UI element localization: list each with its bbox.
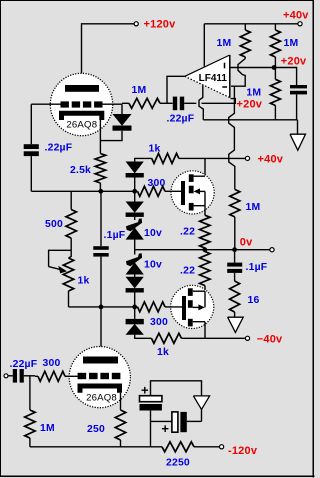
mosfet Q1 envelope: [171, 171, 214, 214]
zener chain Z-C: [126, 217, 143, 255]
label 1M right: [284, 38, 299, 49]
mosfet Q2 channel: [188, 288, 193, 326]
svg-text:300: 300: [150, 317, 168, 328]
resistor 1M feedback: [230, 189, 240, 249]
ground upper right: [290, 134, 306, 150]
node 0v junction a: [202, 247, 207, 252]
wire +20v node: [203, 94, 297, 134]
resistor 1k top: [152, 153, 246, 163]
label .22uF left: [45, 143, 73, 154]
node -input junction: [272, 65, 277, 70]
triode V2 envelope: [69, 347, 130, 408]
resistor .22 b: [200, 252, 210, 286]
wire cap to op-amp base: [184, 99, 235, 104]
wire -120v bus: [30, 446, 162, 448]
svg-text:1M: 1M: [132, 85, 147, 96]
svg-text:+20v: +20v: [281, 55, 307, 67]
svg-text:.22µF: .22µF: [10, 359, 38, 370]
label -40v: [257, 333, 283, 345]
wire op-amp +input network: [229, 59, 246, 190]
wire V1 cathode down: [99, 116, 101, 154]
triode V1 plate: [65, 85, 99, 92]
terminal -120v: [220, 445, 224, 449]
label 1k bottom: [157, 347, 169, 358]
resistor 1M input: [25, 376, 35, 447]
capacitor .22uF input: [8, 369, 35, 383]
svg-text:+40v: +40v: [258, 154, 284, 166]
resistor 16: [230, 281, 240, 317]
node gate2 rail left: [99, 305, 104, 310]
svg-text:.22µF: .22µF: [167, 114, 195, 125]
label 10v lower: [144, 260, 162, 271]
label 1M top: [132, 85, 147, 96]
resistor 300 input: [35, 371, 67, 381]
terminal 0v: [270, 248, 274, 252]
triode V1 grid: [61, 101, 103, 107]
label .22 b: [180, 266, 195, 277]
diode chain D-E: [126, 277, 144, 307]
label +20v lower: [237, 99, 263, 111]
node chain gate2: [132, 305, 137, 310]
mosfet Q2 source lead: [193, 322, 205, 339]
svg-text:1k: 1k: [157, 347, 169, 358]
wire op-amp output: [167, 76, 185, 103]
label 1k top: [149, 143, 161, 154]
capacitor .1uF right: [227, 250, 242, 281]
svg-text:.22µF: .22µF: [45, 143, 73, 154]
label 300 upper: [148, 178, 166, 189]
terminal +120v: [134, 22, 138, 26]
wire gate2 rail: [69, 306, 138, 308]
resistor 1k bottom: [151, 333, 245, 343]
ground filter: [193, 396, 209, 410]
potentiometer 1k wiper: [49, 250, 72, 273]
triode V1 envelope: [50, 73, 112, 135]
label .22uF top: [167, 114, 195, 125]
label +40v top: [283, 10, 309, 22]
svg-text:1M: 1M: [246, 88, 261, 99]
terminal input: [4, 374, 8, 378]
wire Q2 drain up: [204, 286, 206, 292]
label LF411: [199, 73, 228, 84]
label 2250: [166, 457, 190, 468]
svg-text:.22: .22: [180, 227, 195, 238]
mosfet Q2 gate bar: [182, 296, 186, 320]
svg-text:10v: 10v: [144, 260, 162, 271]
resistor 1M middle: [270, 68, 280, 120]
label 1M middle: [246, 88, 261, 99]
wire filter top: [151, 381, 202, 422]
capacitor .22uF top: [173, 97, 184, 111]
wire chain bottom corner: [135, 334, 152, 338]
resistor .22 a: [200, 215, 210, 248]
wire op-amp V- pin: [199, 86, 203, 120]
svg-text:+: +: [161, 421, 169, 436]
triode V1 cathode: [62, 113, 102, 120]
capacitor electrolytic C1: [140, 383, 162, 447]
label .22uF input: [10, 359, 38, 370]
label 1M input: [40, 423, 55, 434]
label 10v upper: [144, 228, 162, 239]
capacitor right .1u: [290, 85, 307, 94]
svg-text:LF411: LF411: [199, 73, 228, 84]
svg-text:+20v: +20v: [237, 99, 263, 111]
diode D1: [100, 104, 131, 140]
svg-text:500: 500: [45, 219, 63, 230]
terminal -40v: [245, 336, 249, 340]
label 2.5k: [70, 165, 91, 176]
svg-text:.1µF: .1µF: [104, 230, 126, 241]
svg-text:10v: 10v: [144, 228, 162, 239]
svg-text:1M: 1M: [246, 202, 261, 213]
label 1M left: [217, 38, 232, 49]
op-amp U1 body: [185, 55, 230, 98]
diode chain D-F: [126, 307, 144, 334]
node gate1 rail left: [98, 189, 103, 194]
mosfet Q2 arrow lead: [193, 304, 205, 310]
capacitor .1uF left: [93, 191, 108, 356]
resistor 1M top: [122, 98, 173, 108]
resistor 1M right: [270, 24, 280, 68]
svg-text:26AQ8: 26AQ8: [66, 120, 97, 131]
label 300 lower: [150, 317, 168, 328]
svg-text:16: 16: [248, 295, 260, 306]
mosfet Q1 gate bar: [181, 181, 185, 205]
label .1uF left: [104, 230, 126, 241]
svg-text:250: 250: [87, 424, 105, 435]
label 1M feedback: [246, 202, 261, 213]
mosfet Q2 drain lead: [193, 291, 205, 307]
svg-text:-120v: -120v: [228, 445, 258, 457]
svg-text:−40v: −40v: [257, 333, 283, 345]
wire V1 grid left: [31, 103, 62, 105]
wire 0v rail: [135, 249, 270, 251]
label 300 input: [43, 358, 61, 369]
wire V1 grid right to node: [103, 103, 123, 105]
svg-text:26AQ8: 26AQ8: [86, 392, 117, 403]
mosfet Q1 drain lead: [194, 175, 205, 177]
label 0v: [240, 236, 253, 248]
svg-text:+40v: +40v: [283, 10, 309, 22]
terminal +40v top: [298, 22, 302, 26]
triode V2 cathode: [80, 386, 120, 393]
wire V2 cathode down: [120, 393, 122, 410]
label 500: [45, 219, 63, 230]
triode V2 plate: [83, 357, 118, 364]
wire +40v top rail: [204, 23, 298, 25]
resistor 300 upper: [138, 186, 182, 196]
mosfet Q1 channel: [189, 174, 194, 210]
op-amp U1 minus marker: [222, 86, 227, 88]
potentiometer 1k body: [63, 250, 73, 307]
svg-text:1M: 1M: [40, 423, 55, 434]
node chain gate1: [132, 189, 137, 194]
wire V2 grid left: [67, 375, 79, 377]
terminal +40v mid: [245, 156, 249, 160]
mosfet Q1 arrow lead: [194, 188, 205, 205]
svg-text:.1µF: .1µF: [246, 262, 268, 273]
svg-text:.22: .22: [180, 266, 195, 277]
wire Q1 drain up: [204, 158, 206, 176]
resistor 2250: [162, 442, 219, 452]
node 0v junction b: [232, 247, 237, 252]
svg-text:1k: 1k: [78, 276, 90, 287]
label 250: [87, 424, 105, 435]
label 26AQ8 V1: [66, 120, 97, 131]
label .22 a: [180, 227, 195, 238]
diode chain D-B: [126, 191, 144, 217]
resistor 250: [115, 410, 125, 447]
label 16: [248, 295, 260, 306]
mosfet Q2 envelope: [171, 285, 214, 328]
wire plate V1 to +120v rail: [82, 24, 135, 85]
svg-text:2250: 2250: [166, 457, 190, 468]
triode V2 grid: [78, 373, 121, 379]
svg-text:1M: 1M: [217, 38, 232, 49]
svg-text:+120v: +120v: [144, 19, 177, 31]
wire gate1 rail: [31, 190, 137, 192]
wire op-amp V+ pin: [203, 24, 205, 67]
label +40v mid: [258, 154, 284, 166]
resistor 2.5k: [95, 154, 105, 192]
capacitor electrolytic C2: [151, 412, 202, 436]
wire chain top corner: [135, 158, 152, 162]
wire op-amp -input: [230, 68, 297, 86]
diode chain D-A: [126, 162, 144, 191]
op-amp U1 plus marker: [224, 63, 226, 69]
svg-text:1M: 1M: [284, 38, 299, 49]
label .1uF right: [246, 262, 268, 273]
label +120v: [144, 19, 177, 31]
resistor 500: [66, 191, 76, 250]
resistor 300 lower: [138, 302, 183, 312]
svg-text:0v: 0v: [240, 236, 253, 248]
zener chain Z-D: [126, 253, 143, 277]
label -120v: [228, 445, 258, 457]
svg-text:2.5k: 2.5k: [70, 165, 91, 176]
label +20v upper: [281, 55, 307, 67]
svg-text:300: 300: [43, 358, 61, 369]
label 26AQ8 V2: [86, 392, 117, 403]
ground mid right: [228, 317, 244, 332]
mosfet Q1 source lead: [194, 206, 205, 216]
capacitor .22uF left: [24, 104, 39, 191]
label 1k pot: [78, 276, 90, 287]
resistor 1M left: [240, 24, 250, 59]
